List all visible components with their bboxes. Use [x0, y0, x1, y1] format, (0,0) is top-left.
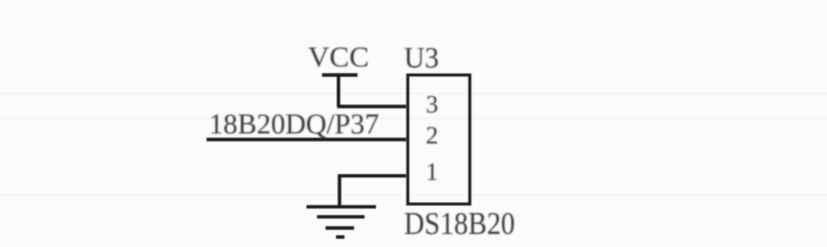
wire pin 1 [338, 174, 406, 177]
wire VCC drop [337, 75, 340, 107]
svg-text:U3: U3 [404, 42, 439, 75]
svg-text:18B20DQ/P37: 18B20DQ/P37 [209, 109, 379, 141]
svg-text:3: 3 [426, 92, 439, 119]
faint scan artifact line [0, 194, 827, 196]
wire ground lead [338, 176, 341, 207]
wire pin 2 (net 18B20DQ/P37) [207, 138, 407, 141]
faint scan artifact line [0, 117, 827, 119]
ground [307, 207, 377, 237]
IC U3 (DS18B20) body [408, 75, 470, 204]
wire pin 3 [337, 105, 406, 108]
svg-text:DS18B20: DS18B20 [404, 205, 515, 241]
svg-text:VCC: VCC [308, 42, 369, 74]
svg-text:2: 2 [426, 123, 439, 150]
faint scan artifact line [0, 93, 827, 95]
svg-text:1: 1 [426, 159, 439, 186]
VCC power symbol bar [322, 73, 358, 76]
